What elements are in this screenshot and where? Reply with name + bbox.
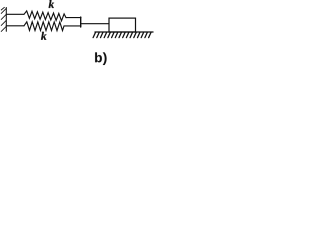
wall hatch 2 [1, 8, 6, 13]
label k (bottom spring) [41, 32, 46, 40]
spring k top : zigzag coil [24, 11, 66, 21]
spring k bottom : lead-out wire [64, 25, 81, 27]
spring k top : lead-out wire [66, 17, 81, 19]
yoke bar joining both springs [80, 17, 82, 27]
label k (top spring) [49, 0, 54, 8]
ground hatching [93, 32, 151, 37]
connecting rod to mass [81, 23, 109, 25]
wall hatch 5 [1, 26, 6, 31]
wall [5, 8, 7, 32]
spring k bottom : lead-in wire [6, 25, 24, 27]
mass block [109, 18, 136, 32]
wall hatch 1 (top partial) [1, 7, 4, 10]
wall hatch 4 [1, 20, 6, 25]
ground line [95, 31, 153, 33]
wall hatch 3 [1, 14, 6, 19]
caption b) [95, 52, 106, 65]
spring k top : lead-in wire [6, 13, 24, 15]
spring k bottom : zigzag coil [24, 22, 64, 31]
